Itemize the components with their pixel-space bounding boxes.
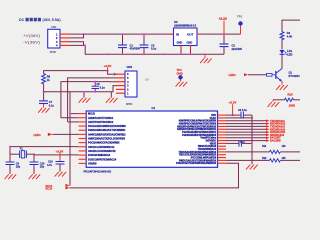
svg-text:OSC1/CLKI/CN30/RC12: OSC1/CLKI/CN30/RC12 <box>88 146 115 149</box>
svg-text:VCAP: VCAP <box>210 117 217 120</box>
wire RC14 to U1 <box>69 184 72 186</box>
wire R8 bottom <box>43 84 45 101</box>
junction gnd rail b <box>164 53 166 55</box>
wire W4 to header p3 <box>61 82 116 118</box>
transistor Q1 <box>267 69 301 82</box>
crystal Y1 <box>10 146 34 158</box>
right net arrows and labels <box>266 119 286 142</box>
svg-text:VusyPGCa/ms: VusyPGCa/ms <box>200 138 216 140</box>
wire W3 to header p2 <box>68 78 116 122</box>
wire -V to gnd rail <box>70 45 225 54</box>
svg-text:+3.3V: +3.3V <box>56 149 64 153</box>
svg-text:R11: R11 <box>262 145 267 148</box>
wire vertical A <box>251 115 253 164</box>
svg-text:VBUS: VBUS <box>210 143 217 145</box>
svg-text:(36V, 5.5A): (36V, 5.5A) <box>43 18 62 22</box>
ground Q1 <box>276 85 288 90</box>
capacitor C1 <box>118 33 140 55</box>
wire Q1 collector <box>281 67 283 68</box>
regulator U3 <box>170 20 202 55</box>
svg-text:AN17/T3CK/T6CK/RC2: AN17/T3CK/T6CK/RC2 <box>88 121 114 124</box>
svg-text:AN16/T2CK/T7CK/RC1: AN16/T2CK/T7CK/RC1 <box>88 117 114 120</box>
svg-text:R10: R10 <box>288 93 294 97</box>
test point TP4 <box>176 68 188 87</box>
net arrow RC13 <box>46 186 70 190</box>
svg-text:U1: U1 <box>152 106 156 110</box>
svg-text:PGC1/AN2/C2INB/U1RX/CN4/RB0: PGC1/AN2/C2INB/U1RX/CN4/RB0 <box>88 125 126 128</box>
svg-text:6PIN: 6PIN <box>126 102 132 106</box>
wire top right feed <box>282 20 300 31</box>
svg-text:4.4K: 4.4K <box>287 35 293 39</box>
wire W1 +3.3V <box>44 71 108 74</box>
resistor R10 pulldown right <box>268 93 300 108</box>
connector CN1 pin stubs <box>60 34 70 45</box>
wires power input <box>70 34 241 54</box>
svg-text:0.1u: 0.1u <box>100 87 105 90</box>
svg-text:GND: GND <box>177 71 183 75</box>
capacitor C8 <box>92 81 106 93</box>
svg-text:GND: GND <box>177 41 183 45</box>
svg-text:RTCC/DMLN/RP16/RD8: RTCC/DMLN/RP16/RD8 <box>191 157 217 159</box>
svg-text:TP1: TP1 <box>237 15 243 19</box>
svg-text:U3: U3 <box>174 20 178 24</box>
capacitor C7 <box>39 100 48 102</box>
svg-text:C6 0.1u: C6 0.1u <box>238 109 247 112</box>
svg-text:RC13: RC13 <box>46 186 53 190</box>
svg-text:-V(36V): -V(36V) <box>23 41 40 45</box>
svg-text:R12: R12 <box>262 157 267 160</box>
svg-text:4.7u: 4.7u <box>47 164 52 167</box>
svg-text:15p: 15p <box>40 166 45 169</box>
svg-text:SOSCI/C3IND/RC13: SOSCI/C3IND/RC13 <box>88 154 111 157</box>
resistor R4 <box>280 31 292 41</box>
svg-text:AN10/RP10/PMA13/OCFB/CN28/R10: AN10/RP10/PMA13/OCFB/CN28/R10 <box>177 125 217 128</box>
junction pin3 <box>84 44 86 46</box>
svg-text:CN1: CN1 <box>51 25 57 29</box>
svg-text:DC: DC <box>19 18 25 22</box>
svg-text:AN8/RP8/OCM1A/PMA6/CN26/RB8: AN8/RP8/OCM1A/PMA6/CN26/RB8 <box>179 120 217 123</box>
svg-text:TMS/CTED1/RA9: TMS/CTED1/RA9 <box>198 145 217 148</box>
svg-text:AN4/C1INB/U2RX/SDA2/CN6/RB2: AN4/C1INB/U2RX/SDA2/CN6/RB2 <box>88 133 126 136</box>
wire LED to Q1 <box>281 55 283 68</box>
wire +36V rail <box>70 33 174 35</box>
wire W4 down to U1 <box>61 117 79 119</box>
svg-text:VSS/D8: VSS/D8 <box>88 162 97 165</box>
MCU U1 <box>84 106 218 174</box>
power +3.3V at U3 out <box>219 17 228 34</box>
svg-text:IN: IN <box>176 32 179 36</box>
net label LED1 (left) <box>34 133 79 137</box>
pullup R8 circuit (MCLR) <box>38 71 108 113</box>
capacitor C9 <box>5 154 21 179</box>
capacitor C5 <box>140 33 157 55</box>
svg-text:100: 100 <box>282 157 287 160</box>
svg-text:VDD: VDD <box>211 115 216 117</box>
power +3.3V C16 <box>56 149 64 161</box>
svg-text:PORC/U4A/T1/RP018/CN21/PM/RD10: PORC/U4A/T1/RP018/CN21/PM/RD10 <box>176 162 217 165</box>
svg-text:AN11/RP11/PMA12/PWM4/CN29/R11: AN11/RP11/PMA12/PWM4/CN29/R11 <box>177 128 217 131</box>
wire U3 out rail +3.3V <box>201 33 241 35</box>
wire pin3 join <box>70 42 84 46</box>
svg-text:OUT: OUT <box>187 32 194 36</box>
wire MCLR down to U1 <box>70 92 79 186</box>
power +3.3V VDD right <box>229 101 237 117</box>
resistor R11 row <box>226 145 300 154</box>
svg-text:MCLR: MCLR <box>88 113 95 116</box>
svg-text:4PIN: 4PIN <box>50 50 56 54</box>
svg-text:TXD/U1TL/RP15/CN12/PMA0/RB15: TXD/U1TL/RP15/CN12/PMA0/RB15 <box>179 154 217 157</box>
svg-text:D/SVREG: D/SVREG <box>206 140 217 142</box>
wire header p1 <box>108 71 113 75</box>
svg-text:1/6: 1/6 <box>145 78 149 82</box>
wire pin2 join <box>70 34 84 38</box>
connector CN1 <box>48 25 60 54</box>
svg-text:LED1: LED1 <box>229 73 237 77</box>
ground left cluster <box>83 92 85 98</box>
svg-text:R4: R4 <box>287 31 291 35</box>
capacitor C2 <box>220 33 243 54</box>
svg-text:+3.3V: +3.3V <box>229 101 237 105</box>
net arrow RC14 <box>46 184 70 188</box>
svg-text:DTC023J: DTC023J <box>289 74 301 78</box>
capacitor C6 <box>226 109 253 119</box>
svg-text:0.1u: 0.1u <box>151 47 157 51</box>
svg-text:+V(36V): +V(36V) <box>23 34 40 38</box>
svg-text:Q1: Q1 <box>289 71 293 75</box>
svg-text:R8: R8 <box>47 74 51 78</box>
svg-text:AN9/RP9/OCM1B/PMA7/CN27/RB9: AN9/RP9/OCM1B/PMA7/CN27/RB9 <box>179 122 217 125</box>
svg-text:+3.3V: +3.3V <box>104 64 112 68</box>
capacitor C10 <box>29 154 45 179</box>
svg-text:PWD/U1A/LRP17/CN20/PMA5/RD9: PWD/U1A/LRP17/CN20/PMA5/RD9 <box>179 159 217 162</box>
resistor R12 row <box>226 157 300 162</box>
test point TP1 <box>237 15 243 35</box>
svg-text:LED: LED <box>287 53 292 57</box>
wire W2 MCLR <box>44 86 116 92</box>
svg-text:LM2940IMP/MAX-3.3: LM2940IMP/MAX-3.3 <box>174 25 197 28</box>
svg-text:OSC2/CLKO/CN29/RC15: OSC2/CLKO/CN29/RC15 <box>88 150 116 153</box>
junction pin2 <box>84 33 86 35</box>
MCU left pin names <box>88 113 126 166</box>
ground right cluster <box>110 92 112 98</box>
wire OSC2 <box>34 153 79 156</box>
LED D1 <box>280 49 293 56</box>
wire RC13 wrap to U1 right <box>70 163 239 188</box>
wire R4 to LED <box>281 41 283 50</box>
right bus wires to net labels <box>226 121 266 141</box>
wire LED1 to Q1 base <box>248 74 267 76</box>
header pin stubs <box>116 74 125 93</box>
svg-text:PGC2/AN6/OCFA/CN24/RB6: PGC2/AN6/OCFA/CN24/RB6 <box>88 142 120 145</box>
svg-text:DAC2/R8: DAC2/R8 <box>270 140 281 143</box>
svg-text:100: 100 <box>282 145 287 148</box>
svg-text:TXD/U1A1/RP14/CN32/PMA1/RB14: TXD/U1A1/RP14/CN32/PMA1/RB14 <box>178 151 216 154</box>
svg-text:LED1: LED1 <box>34 133 42 137</box>
MCU right pin stubs <box>218 115 227 163</box>
svg-text:22uF/16V: 22uF/16V <box>232 48 243 51</box>
svg-text:PGD1/AN3/C2INA/U1TX/CN5/RB1: PGD1/AN3/C2INA/U1TX/CN5/RB1 <box>88 129 126 132</box>
MCU left pin stubs <box>79 114 87 164</box>
svg-text:PIC24FJ64GA006-I/O: PIC24FJ64GA006-I/O <box>84 169 112 173</box>
wire Q1 emitter to gnd <box>281 81 283 85</box>
capacitor C12 <box>226 140 253 146</box>
ground on gnd rail <box>204 54 206 58</box>
svg-text:GND: GND <box>187 41 193 45</box>
svg-text:100K: 100K <box>289 103 296 107</box>
svg-text:+3.3V: +3.3V <box>219 17 228 21</box>
svg-text:PGD3/AN13/RP13/PMA10/RB13: PGD3/AN13/RP13/PMA10/RB13 <box>182 134 217 137</box>
svg-text:CN4: CN4 <box>127 65 133 69</box>
MCU right pin names <box>176 115 217 165</box>
resistor R8 <box>42 74 46 84</box>
power +3.3V header area <box>104 64 112 72</box>
svg-text:LD1: LD1 <box>287 49 292 53</box>
svg-text:TDO/RPI38/RA10: TDO/RPI38/RA10 <box>198 148 217 151</box>
svg-text:SOSCO/RPI37/CN0/RC14: SOSCO/RPI37/CN0/RC14 <box>88 158 117 161</box>
svg-text:15p: 15p <box>16 166 21 169</box>
svg-text:PGC3/AN12/RP12/PMA11/RB12: PGC3/AN12/RP12/PMA11/RB12 <box>182 131 217 134</box>
svg-text:AN5/C1INA/U2TX/SCL2/CN7/RB3: AN5/C1INA/U2TX/SCL2/CN7/RB3 <box>88 138 126 141</box>
svg-text:47uF/50V: 47uF/50V <box>130 48 141 51</box>
net label LED1 (right) <box>229 73 249 77</box>
capacitor C16 <box>47 161 66 177</box>
junction gnd rail a <box>107 53 109 55</box>
title text DC power input <box>19 18 61 22</box>
wire OSC1 <box>10 147 79 155</box>
wire W3 down to U1 <box>68 121 79 123</box>
header CN4 <box>125 65 137 106</box>
svg-text:0.1u: 0.1u <box>49 104 55 108</box>
